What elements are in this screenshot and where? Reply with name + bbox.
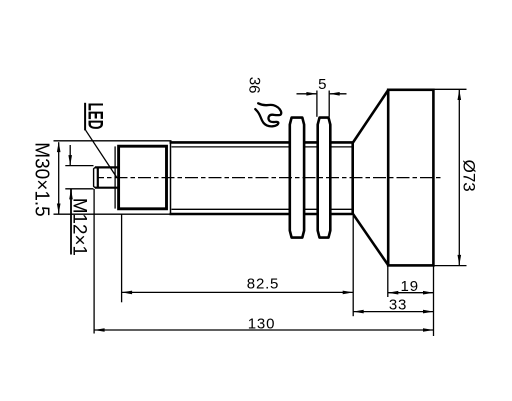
svg-text:33: 33 xyxy=(389,297,407,314)
svg-text:LED: LED xyxy=(84,103,108,130)
svg-text:M12×1: M12×1 xyxy=(69,198,90,256)
dim 5 extension line right xyxy=(328,91,330,117)
LED label underline xyxy=(84,103,86,131)
dim 5 extension line left xyxy=(316,91,318,117)
svg-text:Ø73: Ø73 xyxy=(459,160,478,192)
M12 dimension arrow upper xyxy=(69,145,71,165)
svg-text:82.5: 82.5 xyxy=(247,275,279,292)
barrel bottom outline xyxy=(170,213,353,216)
dia73 top extension line xyxy=(435,88,467,90)
svg-text:19: 19 xyxy=(401,278,419,295)
ext line disc left xyxy=(387,267,389,298)
barrel end cap line xyxy=(170,142,172,214)
cone bottom slant xyxy=(353,214,388,265)
svg-text:M30×1.5: M30×1.5 xyxy=(30,142,53,217)
center line xyxy=(97,177,441,179)
dim 82.5 line xyxy=(122,291,354,293)
dim 5 line left part xyxy=(297,93,317,95)
disc (transducer face) xyxy=(388,90,433,266)
lock nut 1 xyxy=(290,118,304,238)
LED leader line xyxy=(86,130,117,177)
cone base face line xyxy=(351,142,354,214)
M30 top extension line xyxy=(54,140,172,142)
thread bottom line xyxy=(172,208,353,210)
M12 top extension line xyxy=(65,165,93,167)
dia73 bottom extension line xyxy=(435,265,467,267)
lock nut 2 xyxy=(318,118,331,238)
dim 5 line right part xyxy=(330,93,347,95)
rear housing face line xyxy=(114,146,116,208)
connector flange line xyxy=(97,167,99,188)
barrel top outline xyxy=(170,141,353,144)
M30 dimension line xyxy=(58,142,60,213)
wrench icon xyxy=(255,103,281,126)
dia73 dimension line xyxy=(458,90,460,265)
ext line disc right xyxy=(433,267,435,337)
M12 connector body xyxy=(95,166,118,168)
svg-text:130: 130 xyxy=(248,315,275,332)
dim 19 line xyxy=(388,292,434,294)
ext line housing front xyxy=(121,214,123,302)
dim 130 line xyxy=(94,329,433,331)
rear housing block xyxy=(119,146,167,209)
ext line cone base xyxy=(352,216,354,316)
M12 dimension arrow lower with label leader xyxy=(70,189,72,255)
dim 33 line xyxy=(353,311,433,313)
thread top line xyxy=(172,146,353,148)
svg-text:5: 5 xyxy=(318,76,326,93)
cone top slant xyxy=(353,90,388,143)
svg-text:36: 36 xyxy=(245,76,263,94)
M30 bottom extension line xyxy=(54,213,172,215)
M12 bottom extension line xyxy=(65,188,93,190)
ext line connector left xyxy=(93,189,95,334)
